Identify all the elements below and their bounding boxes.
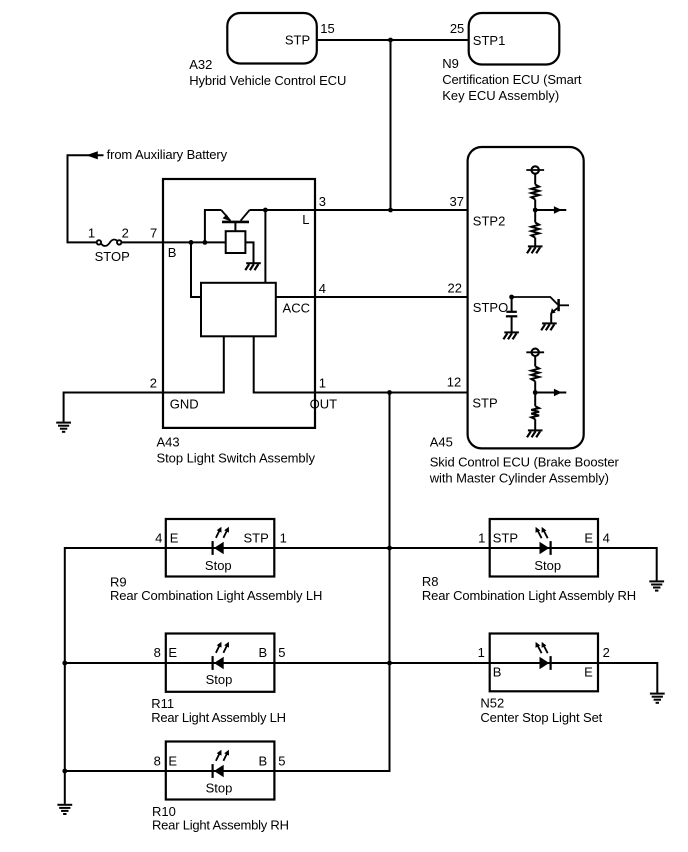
node on B wire branch to transistor	[203, 240, 208, 245]
svg-text:Rear Combination Light Assembl: Rear Combination Light Assembly RH	[422, 588, 636, 603]
svg-text:A43: A43	[157, 434, 180, 449]
junction left bus row2	[62, 661, 67, 666]
svg-text:N52: N52	[480, 696, 504, 711]
svg-text:37: 37	[450, 194, 464, 209]
stop light switch contact 2 terminal	[117, 240, 121, 244]
svg-text:STP: STP	[244, 531, 269, 546]
svg-text:Key ECU Assembly): Key ECU Assembly)	[442, 88, 559, 103]
earth ground of R8	[649, 581, 664, 590]
svg-text:L: L	[302, 212, 309, 227]
transistor Q2 collector	[559, 304, 569, 306]
wire resistor to STP node	[534, 381, 536, 406]
svg-text:B: B	[493, 665, 502, 680]
wire node to transistor emitter	[205, 210, 221, 242]
wire ACC unit to GND pin 2	[64, 336, 224, 422]
svg-text:Stop: Stop	[205, 558, 232, 573]
ACC unit box inside A43	[201, 283, 276, 337]
svg-text:OUT: OUT	[310, 396, 338, 411]
svg-text:1: 1	[88, 225, 95, 240]
wire ACC unit to OUT pin 1	[254, 336, 468, 392]
svg-text:B: B	[168, 245, 177, 260]
wire through R9	[166, 547, 274, 549]
chassis ground STP	[527, 430, 543, 437]
wire STPO node to transistor base	[512, 297, 558, 304]
chassis ground of Q2 emitter	[541, 323, 557, 330]
svg-text:B: B	[259, 753, 268, 768]
stop lamp bulb N52	[536, 642, 551, 670]
transistor Q2 base bar	[557, 299, 560, 311]
svg-text:1: 1	[280, 531, 287, 546]
svg-text:Stop Light Switch Assembly: Stop Light Switch Assembly	[157, 450, 316, 465]
svg-text:Rear Light Assembly RH: Rear Light Assembly RH	[152, 818, 289, 833]
wire R8 to earth ground	[598, 548, 657, 581]
wire through N52	[490, 662, 598, 664]
connector R8 Rear Combination Light RH box	[490, 519, 598, 577]
signal arrow STP	[535, 392, 566, 394]
wire resistor to ground STP	[534, 419, 536, 430]
svg-text:15: 15	[320, 21, 334, 36]
junction top	[388, 38, 393, 43]
wire from top junction down to STP2 wire	[390, 40, 392, 210]
svg-text:E: E	[168, 753, 177, 768]
capacitor C1 plates	[506, 311, 516, 313]
connector A45 Skid Control ECU box	[468, 147, 584, 448]
svg-text:2: 2	[122, 225, 129, 240]
earth ground of N52	[650, 694, 665, 703]
lamp bus vertical from OUT junction	[274, 393, 389, 772]
svg-text:STP2: STP2	[473, 214, 506, 229]
earth ground of A43 GND	[56, 423, 71, 432]
svg-text:Hybrid Vehicle Control ECU: Hybrid Vehicle Control ECU	[189, 73, 346, 88]
svg-text:STOP: STOP	[95, 249, 130, 264]
resistor STP2 lower	[531, 223, 539, 238]
node STP	[533, 390, 538, 395]
connector R11 Rear Light LH box	[166, 634, 275, 692]
wire node1 down to ACC unit left	[191, 242, 201, 297]
junction pin3 wire and top vertical	[388, 208, 393, 213]
svg-text:4: 4	[603, 531, 610, 546]
junction left bus row3	[62, 769, 67, 774]
wire STPO node to capacitor	[511, 297, 513, 311]
svg-text:Stop: Stop	[206, 672, 233, 687]
svg-text:STP: STP	[493, 531, 518, 546]
resistor STP upper	[531, 366, 539, 381]
arrow from Auxiliary Battery	[86, 151, 98, 159]
svg-text:2: 2	[150, 376, 157, 391]
svg-text:E: E	[584, 531, 593, 546]
signal arrow STP2	[535, 209, 566, 211]
resistor STP lower	[531, 406, 539, 419]
wire through R11	[166, 662, 275, 664]
node collector branch down to ACC unit	[263, 208, 268, 213]
svg-text:4: 4	[319, 281, 326, 296]
power source symbol STP	[526, 349, 544, 356]
wire capacitor to ground	[511, 316, 513, 332]
svg-text:Rear Combination Light Assembl: Rear Combination Light Assembly LH	[110, 588, 322, 603]
transistor Q1 emitter slant with arrow	[221, 210, 230, 221]
wire left bus to R11 to N52	[65, 662, 490, 664]
stop lamp bulb R8	[536, 527, 551, 555]
svg-text:N9: N9	[442, 56, 459, 71]
svg-text:1: 1	[478, 531, 485, 546]
connector A32 Hybrid Vehicle Control ECU	[227, 13, 316, 64]
svg-text:GND: GND	[170, 396, 199, 411]
wire through R10	[166, 770, 275, 772]
coil box of A43	[226, 231, 246, 253]
svg-text:8: 8	[154, 645, 161, 660]
wire base bar to coil box	[234, 222, 236, 231]
stop lamp bulb R9	[213, 527, 229, 555]
svg-text:Center Stop Light Set: Center Stop Light Set	[480, 710, 602, 725]
node STPO	[509, 295, 514, 300]
node on B wire branch to ACC unit	[189, 240, 194, 245]
stop lamp bulb R10	[213, 750, 229, 778]
svg-text:Rear Light Assembly LH: Rear Light Assembly LH	[151, 710, 286, 725]
wire power to resistor STP	[534, 356, 536, 366]
svg-text:3: 3	[319, 194, 326, 209]
wire from auxiliary battery elbow	[68, 155, 104, 242]
connector N9 Certification ECU	[469, 13, 560, 65]
svg-text:R8: R8	[422, 574, 439, 589]
stop lamp bulb R11	[213, 642, 229, 670]
chassis ground of coil	[245, 263, 260, 270]
wire emitter to ground	[550, 313, 552, 323]
connector A43 Stop Light Switch Assembly box	[163, 179, 315, 428]
wire coil to internal ground	[245, 242, 253, 262]
junction lamp bus row1	[387, 546, 392, 551]
chassis ground of capacitor	[503, 332, 519, 339]
svg-text:22: 22	[448, 281, 462, 296]
wire A32 STP pin15 to N9 STP1 pin25	[317, 39, 469, 41]
svg-text:Stop: Stop	[534, 558, 561, 573]
power source symbol STP2	[526, 166, 544, 173]
svg-text:B: B	[259, 645, 268, 660]
stop light switch contact 1 terminal	[97, 240, 101, 244]
svg-text:E: E	[170, 531, 179, 546]
svg-text:ACC: ACC	[283, 301, 310, 316]
wire switch to A43 pin 7 B	[122, 241, 226, 243]
connector R9 Rear Combination Light LH box	[166, 519, 274, 577]
svg-text:R10: R10	[152, 804, 176, 819]
svg-text:4: 4	[155, 531, 162, 546]
wire R9 to lamp bus to R8	[274, 547, 489, 549]
svg-text:with Master Cylinder Assembly): with Master Cylinder Assembly)	[429, 470, 609, 485]
earth ground bottom left	[57, 805, 72, 814]
svg-text:STP1: STP1	[473, 33, 506, 48]
wire transistor collector to pin 3 L	[250, 209, 468, 211]
svg-text:1: 1	[319, 375, 326, 390]
svg-text:7: 7	[150, 225, 157, 240]
junction OUT wire and lamp bus	[387, 390, 392, 395]
svg-text:5: 5	[278, 753, 285, 768]
wire resistor to STP2 node	[534, 199, 536, 222]
svg-text:E: E	[584, 665, 593, 680]
svg-text:from Auxiliary Battery: from Auxiliary Battery	[107, 147, 228, 162]
svg-text:2: 2	[603, 645, 610, 660]
connector N52 Center Stop Light Set box	[490, 634, 598, 692]
wire left bus to R10	[65, 770, 166, 772]
svg-text:STPO: STPO	[473, 300, 508, 315]
svg-text:Certification ECU (Smart: Certification ECU (Smart	[442, 72, 582, 87]
chassis ground STP2	[527, 246, 543, 253]
left bus from R9 row to bottom ground	[65, 548, 166, 804]
svg-text:STP: STP	[285, 32, 310, 47]
svg-text:Skid Control ECU (Brake Booste: Skid Control ECU (Brake Booster	[430, 455, 620, 470]
svg-text:STP: STP	[472, 396, 497, 411]
transistor Q1 base bar	[222, 221, 249, 224]
svg-text:8: 8	[154, 753, 161, 768]
svg-text:5: 5	[278, 645, 285, 660]
svg-text:E: E	[168, 645, 177, 660]
junction lamp bus row2	[387, 661, 392, 666]
wire collector node down to ACC unit	[264, 210, 266, 283]
svg-text:1: 1	[478, 645, 485, 660]
resistor STP2 upper	[531, 185, 539, 200]
transistor Q1 collector slant	[241, 210, 250, 221]
wire through R8	[490, 547, 598, 549]
wire ACC unit to pin 4 ACC	[276, 296, 468, 298]
svg-text:Stop: Stop	[206, 780, 233, 795]
connector R10 Rear Light RH box	[166, 742, 275, 800]
svg-text:R11: R11	[151, 696, 174, 711]
stop light switch blade	[101, 240, 117, 246]
svg-text:A32: A32	[189, 57, 212, 72]
svg-text:12: 12	[447, 375, 461, 390]
node STP2	[533, 208, 538, 213]
svg-text:25: 25	[450, 21, 464, 36]
svg-text:A45: A45	[430, 434, 453, 449]
wire power to resistor STP2	[534, 174, 536, 185]
wire N52 to earth ground	[598, 663, 657, 693]
wire resistor to ground STP2	[534, 238, 536, 246]
transistor Q2 emitter with arrow	[551, 308, 557, 313]
